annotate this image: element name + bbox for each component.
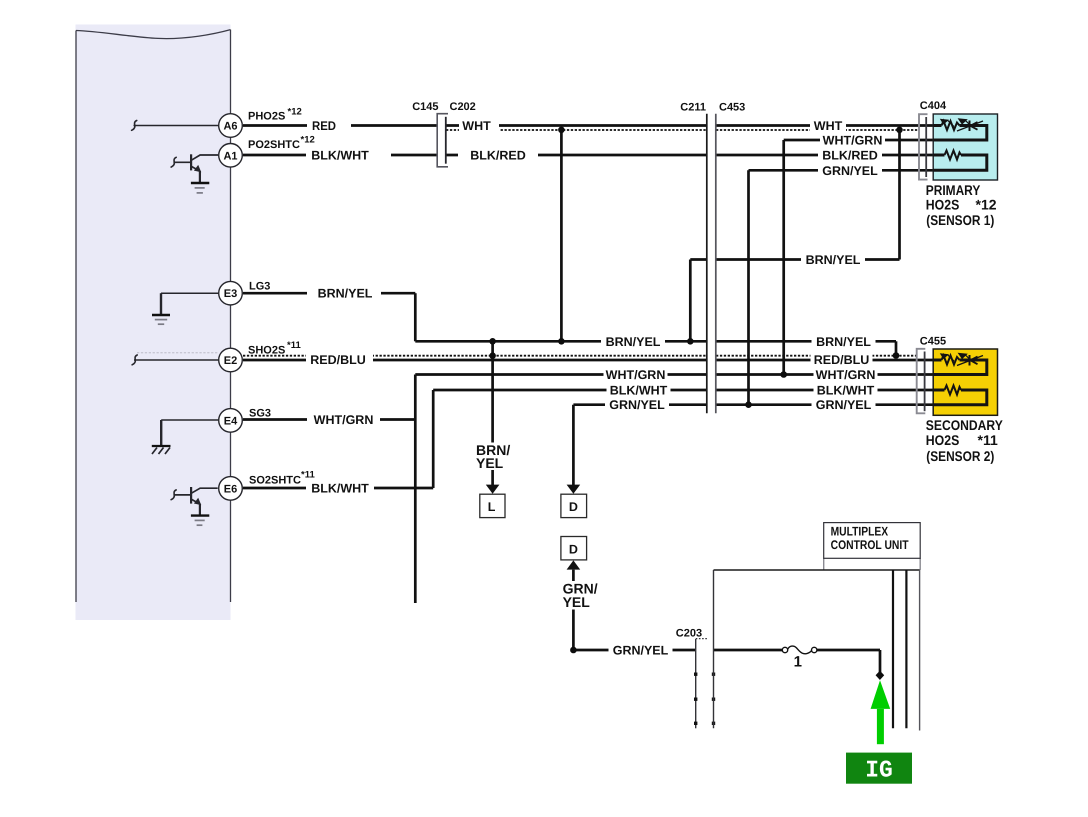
svg-text:C203: C203: [676, 628, 702, 640]
svg-text:GRN/YEL: GRN/YEL: [613, 643, 669, 657]
svg-text:*12: *12: [301, 135, 315, 146]
svg-text:C453: C453: [719, 102, 745, 114]
svg-text:A6: A6: [223, 121, 237, 133]
svg-text:*11: *11: [978, 432, 998, 448]
svg-text:C404: C404: [920, 100, 947, 112]
svg-text:PHO2S: PHO2S: [248, 111, 285, 123]
svg-text:LG3: LG3: [249, 281, 270, 293]
svg-text:E3: E3: [224, 288, 237, 300]
svg-text:YEL: YEL: [563, 594, 591, 610]
svg-text:C145: C145: [412, 101, 438, 113]
svg-text:L: L: [488, 500, 496, 514]
svg-text:IG: IG: [865, 758, 893, 785]
svg-text:BRN/YEL: BRN/YEL: [816, 335, 871, 349]
svg-text:BLK/RED: BLK/RED: [822, 149, 878, 163]
svg-text:HO2S: HO2S: [926, 432, 960, 448]
svg-text:(SENSOR 1): (SENSOR 1): [926, 212, 994, 228]
svg-text:CONTROL UNIT: CONTROL UNIT: [831, 538, 909, 552]
svg-text:RED/BLU: RED/BLU: [310, 353, 366, 367]
svg-text:(SENSOR 2): (SENSOR 2): [926, 448, 994, 464]
svg-text:GRN/YEL: GRN/YEL: [609, 398, 665, 412]
svg-text:GRN/YEL: GRN/YEL: [816, 398, 872, 412]
svg-text:C455: C455: [920, 336, 946, 348]
svg-text:BLK/WHT: BLK/WHT: [311, 149, 369, 163]
svg-text:1: 1: [794, 653, 802, 670]
svg-text:BRN/YEL: BRN/YEL: [806, 253, 861, 267]
svg-text:E6: E6: [224, 483, 237, 495]
svg-text:GRN/YEL: GRN/YEL: [822, 164, 878, 178]
svg-text:BRN/YEL: BRN/YEL: [606, 335, 661, 349]
svg-text:E2: E2: [224, 355, 237, 367]
svg-text:*11: *11: [287, 340, 301, 351]
svg-text:RED/BLU: RED/BLU: [814, 353, 870, 367]
svg-text:*12: *12: [976, 197, 997, 213]
svg-text:MULTIPLEX: MULTIPLEX: [831, 525, 889, 539]
svg-text:BLK/WHT: BLK/WHT: [817, 384, 875, 398]
svg-text:BLK/RED: BLK/RED: [470, 149, 526, 163]
svg-text:D: D: [569, 542, 578, 556]
svg-text:BLK/WHT: BLK/WHT: [610, 384, 668, 398]
svg-text:C202: C202: [450, 101, 476, 113]
svg-text:E4: E4: [224, 415, 238, 427]
svg-text:WHT: WHT: [814, 119, 843, 133]
svg-text:YEL: YEL: [476, 455, 504, 471]
svg-text:C211: C211: [680, 102, 706, 114]
svg-text:WHT/GRN: WHT/GRN: [314, 413, 374, 427]
svg-text:D: D: [569, 500, 578, 514]
svg-text:SECONDARY: SECONDARY: [926, 417, 1004, 433]
svg-text:SG3: SG3: [249, 408, 271, 420]
svg-text:SHO2S: SHO2S: [248, 345, 285, 357]
svg-text:A1: A1: [223, 150, 237, 162]
svg-text:HO2S: HO2S: [926, 197, 960, 213]
svg-text:SO2SHTC: SO2SHTC: [249, 475, 301, 487]
svg-text:WHT/GRN: WHT/GRN: [816, 368, 876, 382]
svg-text:WHT/GRN: WHT/GRN: [823, 134, 883, 148]
svg-text:*12: *12: [288, 107, 302, 118]
svg-text:RED: RED: [312, 119, 336, 133]
svg-text:*11: *11: [301, 470, 315, 481]
svg-text:WHT/GRN: WHT/GRN: [606, 368, 666, 382]
svg-text:BLK/WHT: BLK/WHT: [311, 482, 369, 496]
svg-text:BRN/YEL: BRN/YEL: [318, 287, 373, 301]
svg-text:PO2SHTC: PO2SHTC: [248, 139, 300, 151]
svg-text:WHT: WHT: [462, 119, 491, 133]
